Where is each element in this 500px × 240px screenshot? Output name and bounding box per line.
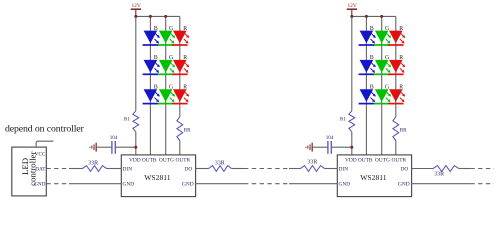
svg-text:controller: controller (27, 152, 37, 186)
svg-text:B: B (154, 26, 158, 32)
svg-text:B: B (154, 84, 158, 90)
svg-text:R: R (183, 84, 187, 90)
svg-text:DIN: DIN (339, 166, 349, 172)
svg-text:33R: 33R (307, 160, 317, 166)
svg-text:R: R (399, 55, 403, 61)
svg-text:R: R (183, 26, 187, 32)
svg-text:12V: 12V (131, 3, 140, 9)
svg-text:OUTB: OUTB (358, 158, 373, 164)
svg-text:depend on controller: depend on controller (5, 124, 85, 135)
svg-text:OUTR: OUTR (175, 158, 190, 164)
svg-text:R1: R1 (340, 118, 346, 123)
svg-text:12V: 12V (347, 3, 356, 9)
svg-text:G: G (385, 55, 389, 61)
svg-text:R: R (183, 55, 187, 61)
svg-text:B: B (370, 55, 374, 61)
svg-text:RR: RR (184, 128, 191, 134)
svg-text:104: 104 (326, 135, 334, 141)
svg-text:WS2811: WS2811 (144, 173, 170, 182)
svg-text:VDD: VDD (129, 158, 141, 164)
svg-text:R: R (399, 84, 403, 90)
svg-text:104: 104 (110, 135, 118, 141)
svg-text:DIN: DIN (123, 166, 133, 172)
svg-text:G: G (169, 55, 173, 61)
svg-text:GND: GND (339, 181, 351, 187)
svg-text:OUTB: OUTB (142, 158, 157, 164)
svg-text:DO: DO (401, 166, 409, 172)
svg-text:G: G (169, 26, 173, 32)
svg-text:OUTR: OUTR (391, 158, 406, 164)
svg-text:G: G (169, 84, 173, 90)
svg-text:GND: GND (398, 182, 410, 188)
svg-text:33R: 33R (215, 161, 225, 167)
svg-text:G: G (385, 84, 389, 90)
svg-text:WS2811: WS2811 (360, 173, 386, 182)
svg-text:RR: RR (400, 128, 407, 134)
svg-text:R: R (399, 26, 403, 32)
svg-text:G: G (385, 26, 389, 32)
svg-text:B: B (370, 26, 374, 32)
svg-text:33R: 33R (88, 161, 98, 167)
svg-text:VDD: VDD (345, 158, 357, 164)
svg-text:R1: R1 (124, 118, 130, 123)
svg-text:DO: DO (185, 166, 193, 172)
svg-text:GND: GND (182, 182, 194, 188)
svg-text:GND: GND (123, 181, 135, 187)
svg-text:OUTG: OUTG (375, 158, 390, 164)
svg-text:B: B (154, 55, 158, 61)
svg-text:OUTG: OUTG (159, 158, 174, 164)
svg-text:B: B (370, 84, 374, 90)
svg-text:33R: 33R (434, 172, 444, 178)
